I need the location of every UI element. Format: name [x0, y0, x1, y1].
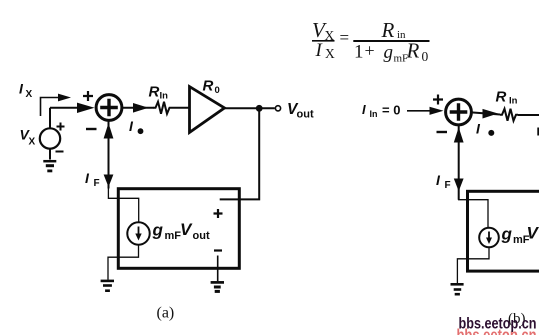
feedback box (b, clipped): [468, 191, 539, 271]
wire into summing node: [50, 107, 80, 109]
formula V_X/I_X = R_in/(1+g_mF R_0): [312, 18, 429, 65]
svg-text:X: X: [29, 137, 36, 148]
svg-text:R: R: [381, 18, 395, 42]
svg-text:F: F: [94, 178, 100, 189]
ground bottom-left of box: [101, 281, 114, 291]
svg-text:(a): (a): [157, 305, 175, 322]
svg-text:bbs.eetop.cn: bbs.eetop.cn: [459, 316, 537, 333]
wire summing node down (b): [458, 125, 460, 200]
minus sign inside box: [214, 249, 222, 251]
wire V_X top to node wire: [49, 108, 51, 129]
feedback network box: [118, 189, 239, 269]
wire node to resistor (b): [471, 112, 500, 114]
svg-text:R: R: [149, 84, 160, 101]
arrowhead up into node: [104, 123, 114, 139]
svg-text:In: In: [370, 109, 378, 119]
label g_mF V_out: [152, 220, 210, 242]
feedback wire from V_out node down into box: [220, 108, 260, 199]
label V_out: [287, 101, 314, 121]
label I_in = 0: [362, 102, 400, 119]
controlled current source g_mF V_out: [127, 222, 149, 244]
ground under box right: [211, 282, 224, 291]
label I_e: [129, 118, 143, 134]
label g_mF V (b): [501, 224, 539, 247]
svg-text:I: I: [129, 118, 134, 134]
voltage source V_X: [40, 128, 60, 148]
arrowhead I_F down: [104, 175, 114, 188]
label I_F: [85, 170, 100, 189]
arrowhead up into node (b): [454, 127, 464, 142]
ground (b): [451, 284, 464, 294]
minus sign at node (b): [437, 131, 448, 133]
plus sign at node (b): [433, 95, 443, 105]
svg-text:0: 0: [215, 85, 220, 96]
svg-text:X: X: [325, 46, 335, 61]
svg-text:=: =: [340, 28, 350, 47]
wire from box minus terminal to ground: [217, 256, 219, 282]
svg-text:In: In: [160, 91, 169, 102]
wire node to resistor: [122, 107, 154, 109]
svg-text:= 0: = 0: [382, 102, 400, 117]
ground under V_X: [43, 161, 56, 171]
thin wire source bottom to left ground: [108, 245, 139, 280]
label I_X: [19, 81, 33, 101]
arrowhead I_e: [133, 103, 149, 113]
wire resistor to amp: [171, 107, 189, 109]
label R_in (b): [496, 89, 518, 107]
fraction bar right: [353, 40, 429, 42]
op-amp triangle R_0: [190, 87, 225, 133]
svg-text:R: R: [203, 78, 214, 95]
svg-text:1: 1: [354, 42, 364, 63]
label R_in: [149, 84, 169, 102]
svg-text:g: g: [501, 225, 513, 244]
summing node S1: [96, 95, 122, 121]
fraction bar left: [312, 40, 335, 42]
thin wire source bottom to ground (b): [457, 247, 489, 283]
wire summing node down (I_F branch): [108, 120, 110, 189]
thin wire I_F to controlled source top: [108, 187, 138, 222]
label I_e (b): [476, 121, 494, 137]
svg-text:I: I: [362, 102, 366, 117]
resistor R_in: [154, 102, 172, 114]
V_X plus sign: [57, 123, 65, 131]
svg-text:I: I: [85, 170, 90, 186]
minus sign at node feedback input: [86, 128, 97, 130]
svg-text:R: R: [496, 89, 507, 106]
svg-text:F: F: [445, 180, 451, 191]
junction dot: [256, 105, 263, 112]
svg-text:mF: mF: [165, 230, 182, 242]
svg-text:V: V: [527, 224, 539, 243]
input arrow (b): [407, 110, 430, 112]
plus sign inside box: [214, 209, 223, 218]
resistor R_in (b): [500, 109, 518, 121]
svg-text:R: R: [406, 39, 420, 63]
svg-text:I: I: [19, 81, 24, 97]
svg-text:0: 0: [422, 49, 429, 64]
svg-text:I: I: [476, 121, 481, 137]
svg-text:g: g: [384, 42, 394, 63]
label R_0: [203, 78, 220, 97]
svg-text:I: I: [315, 40, 324, 61]
svg-text:In: In: [509, 96, 518, 107]
V_X minus sign: [56, 151, 64, 153]
arrowhead into summing node: [77, 103, 95, 113]
arrowhead I_F down (b): [454, 179, 464, 192]
svg-text:+: +: [365, 41, 375, 61]
label I_F (b): [436, 172, 451, 191]
svg-text:in: in: [397, 29, 406, 41]
svg-text:out: out: [193, 230, 210, 242]
open terminal V_out: [275, 106, 280, 111]
svg-text:I: I: [436, 172, 441, 188]
controlled source (b): [479, 228, 499, 248]
wire V_X bottom to ground: [49, 149, 51, 160]
svg-text:g: g: [152, 221, 164, 240]
arrowhead I_e (b): [483, 109, 499, 119]
wire resistor to edge (b): [518, 114, 539, 116]
clipped character at right edge: [537, 128, 539, 136]
summing node S2: [446, 99, 472, 125]
label V_X: [20, 127, 36, 148]
svg-text:V: V: [180, 220, 193, 239]
svg-text:X: X: [26, 89, 33, 100]
plus sign at node input: [83, 91, 93, 101]
output wire to V_out: [225, 107, 275, 109]
thin wire I_F to source top (b): [459, 191, 488, 228]
svg-text:out: out: [297, 109, 314, 121]
current arrow I_X: [41, 94, 72, 116]
